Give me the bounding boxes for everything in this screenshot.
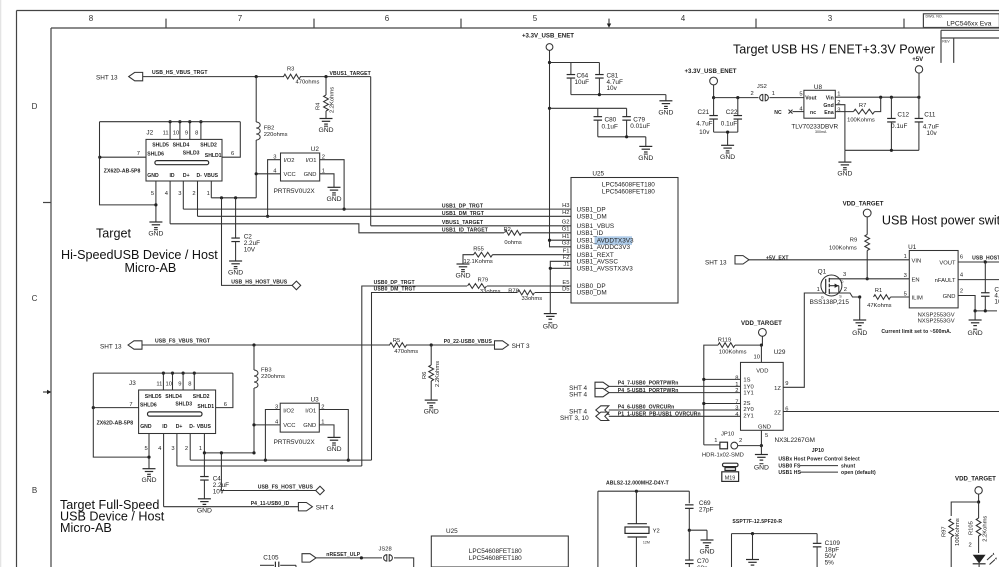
connector J2 slot bbox=[155, 161, 209, 165]
svg-text:SHLD6: SHLD6 bbox=[147, 152, 164, 158]
wire cap branch2 bbox=[550, 107, 627, 109]
svg-text:ABLS2-12.000MHZ-D4Y-T: ABLS2-12.000MHZ-D4Y-T bbox=[606, 480, 670, 486]
svg-text:GND: GND bbox=[852, 330, 867, 337]
svg-text:NXSP2553GV: NXSP2553GV bbox=[918, 319, 955, 325]
svg-text:VOUT: VOUT bbox=[939, 261, 956, 267]
resistor R5 bbox=[390, 338, 419, 355]
svg-text:D-: D- bbox=[189, 424, 195, 430]
connector J3 top pins 11 10 9 8 bbox=[156, 372, 196, 391]
ground below U3 bbox=[326, 437, 341, 453]
svg-text:GND: GND bbox=[326, 446, 341, 453]
svg-text:G2: G2 bbox=[562, 220, 570, 226]
title block label REV bbox=[942, 40, 950, 44]
svg-text:nRESET_ULP: nRESET_ULP bbox=[326, 552, 360, 558]
wire cap branch2 bottom bbox=[598, 135, 646, 146]
svg-text:GND: GND bbox=[304, 172, 317, 178]
svg-text:100Kohms: 100Kohms bbox=[847, 118, 875, 124]
svg-text:+5V: +5V bbox=[912, 56, 924, 63]
svg-text:6: 6 bbox=[960, 254, 963, 260]
svg-text:3: 3 bbox=[904, 273, 907, 279]
svg-text:11: 11 bbox=[163, 130, 169, 136]
connector J3 shield pin labels bbox=[140, 394, 214, 410]
svg-text:USB1 HS: USB1 HS bbox=[778, 470, 801, 476]
wire SSPT7F top bbox=[732, 532, 818, 567]
svg-text:+5V_EXT: +5V_EXT bbox=[766, 255, 789, 261]
net label P1_1-USER_PB-USB1_OVRCURn bbox=[618, 411, 701, 417]
sheet port SHT 13 USB_HS_VBUS_TRGT bbox=[96, 72, 143, 81]
ic U1 NXSP2553GV body bbox=[908, 244, 958, 325]
highlight USB1_AVDDTX3V3 bbox=[595, 236, 632, 245]
net label USB_FS_VBUS_TRGT bbox=[155, 339, 211, 345]
svg-text:nFAULT: nFAULT bbox=[935, 278, 956, 284]
svg-text:VIN: VIN bbox=[912, 258, 922, 264]
svg-text:VDD_TARGET: VDD_TARGET bbox=[955, 476, 996, 483]
svg-text:R1: R1 bbox=[875, 288, 882, 294]
svg-text:GND: GND bbox=[837, 171, 852, 178]
wire U8 Gnd bbox=[835, 105, 845, 151]
svg-text:NC: NC bbox=[774, 110, 782, 116]
svg-text:E5: E5 bbox=[562, 280, 569, 286]
net label USB1_DM_TRGT bbox=[442, 211, 485, 217]
svg-text:USB Host power switch: USB Host power switch bbox=[882, 214, 999, 228]
svg-text:2: 2 bbox=[321, 404, 324, 410]
svg-text:9: 9 bbox=[785, 381, 788, 387]
column label 7 bbox=[238, 14, 243, 23]
junction cap branch 2 bbox=[548, 107, 551, 110]
wire VDD to U29 bbox=[754, 344, 763, 363]
net label +5V_EXT bbox=[766, 255, 789, 261]
sheet center mark top bbox=[607, 19, 611, 28]
svg-text:10: 10 bbox=[754, 355, 760, 361]
wire J2 shield left to gnd bbox=[100, 122, 156, 205]
svg-text:D-: D- bbox=[197, 173, 203, 179]
svg-text:USB1_DM_TRGT: USB1_DM_TRGT bbox=[442, 211, 485, 217]
svg-text:0.1uF: 0.1uF bbox=[602, 124, 618, 131]
off-page diamond USB_HS_HOST_VBUS bbox=[292, 281, 301, 290]
svg-text:USB1_ID_TARGET: USB1_ID_TARGET bbox=[442, 228, 489, 234]
svg-text:open (default): open (default) bbox=[841, 470, 876, 476]
net label USB_HS_HOST_VBUS bbox=[231, 279, 287, 285]
svg-text:5: 5 bbox=[151, 191, 154, 197]
ground below C2 bbox=[228, 261, 243, 277]
svg-text:R6: R6 bbox=[422, 372, 428, 379]
svg-text:C21: C21 bbox=[698, 109, 710, 116]
svg-text:Y2: Y2 bbox=[653, 529, 660, 535]
power symbol +5V bbox=[912, 56, 924, 97]
off-page diamond USB_FS_HOST_VBUS bbox=[316, 486, 325, 495]
wire U29 2S bbox=[702, 402, 740, 405]
svg-text:R55: R55 bbox=[473, 246, 484, 252]
svg-text:1: 1 bbox=[735, 382, 738, 388]
svg-text:220ohms: 220ohms bbox=[261, 374, 285, 380]
svg-text:SHT 3, 10: SHT 3, 10 bbox=[560, 415, 589, 422]
capacitor C21 bbox=[696, 98, 718, 136]
net label VBUS1_TARGET top bbox=[330, 71, 372, 77]
svg-text:1: 1 bbox=[321, 420, 324, 426]
jumper JP10 header bbox=[702, 432, 761, 459]
svg-text:USB_FS_HOST_VBUS: USB_FS_HOST_VBUS bbox=[258, 485, 314, 491]
svg-text:USB1_DP_TRGT: USB1_DP_TRGT bbox=[442, 203, 484, 209]
resistor R6 bbox=[422, 345, 441, 400]
wire cap branch1 bottom bbox=[571, 93, 666, 101]
svg-text:SHLD3: SHLD3 bbox=[175, 402, 192, 408]
ground crystal bbox=[699, 540, 714, 556]
wire USB1_ID_TARGET bbox=[170, 224, 571, 233]
ferrite bead FB2 bbox=[256, 77, 287, 198]
svg-text:C11: C11 bbox=[924, 111, 936, 118]
ground below Q1 source bbox=[852, 320, 867, 337]
svg-text:ID: ID bbox=[162, 424, 167, 430]
ic U25 pin designators bbox=[562, 203, 570, 292]
svg-text:JS28: JS28 bbox=[379, 547, 392, 553]
wire U29 1S bbox=[702, 378, 740, 381]
svg-text:H3: H3 bbox=[562, 203, 569, 209]
svg-text:2.2Kohms: 2.2Kohms bbox=[435, 361, 441, 387]
resistor R9 bbox=[829, 235, 870, 281]
svg-text:1Y1: 1Y1 bbox=[743, 391, 753, 397]
svg-text:LPC546xx Eva: LPC546xx Eva bbox=[947, 20, 992, 27]
wire P1_1-USER_PB-USB1_OVRCURn bbox=[609, 415, 741, 417]
svg-text:SHLD1: SHLD1 bbox=[205, 153, 222, 159]
svg-text:F2: F2 bbox=[563, 255, 570, 261]
ground below R55 bbox=[455, 264, 470, 280]
ic U3 pin labels bbox=[283, 408, 316, 429]
svg-text:3: 3 bbox=[828, 14, 833, 23]
ic U1 pin labels bbox=[904, 254, 964, 302]
column label 3 bbox=[828, 14, 833, 23]
svg-text:Vout: Vout bbox=[805, 96, 816, 102]
connector J2 bottom pin labels bbox=[147, 173, 218, 179]
connector J3 pin1 VBUS stub bbox=[199, 434, 205, 453]
ground below U8 bbox=[837, 162, 852, 178]
capacitor C81 bbox=[595, 63, 623, 95]
svg-text:R105: R105 bbox=[969, 521, 975, 535]
svg-text:GND: GND bbox=[228, 270, 243, 277]
svg-text:D+: D+ bbox=[176, 424, 183, 430]
svg-text:2: 2 bbox=[968, 542, 971, 548]
svg-text:5: 5 bbox=[145, 446, 148, 452]
note JP10 function bbox=[778, 448, 876, 476]
net label USB_FS_HOST_VBUS bbox=[258, 485, 314, 491]
svg-text:3: 3 bbox=[735, 406, 738, 412]
title USB Host power switch bbox=[882, 214, 999, 228]
svg-text:GND: GND bbox=[754, 465, 769, 472]
wire USB1_DM_TRGT bbox=[198, 215, 572, 217]
svg-text:USBx Host Power Control Select: USBx Host Power Control Select bbox=[778, 456, 860, 462]
junction C2 tap bbox=[234, 196, 237, 199]
svg-text:SHT 13: SHT 13 bbox=[96, 74, 118, 81]
power symbol VDD_TARGET U1 bbox=[843, 201, 884, 235]
svg-text:10v: 10v bbox=[699, 129, 710, 136]
svg-text:C70: C70 bbox=[697, 558, 709, 565]
svg-text:DWG. NO.: DWG. NO. bbox=[926, 15, 943, 19]
note crystal part number bbox=[606, 480, 670, 486]
note current limit bbox=[881, 329, 952, 335]
net label USB_HS_VBUS_TRGT bbox=[152, 70, 208, 76]
svg-text:VCC: VCC bbox=[283, 423, 295, 429]
column label 6 bbox=[385, 14, 390, 23]
svg-text:VBUS: VBUS bbox=[204, 173, 219, 179]
svg-text:2.2Kohms: 2.2Kohms bbox=[330, 87, 336, 113]
svg-text:USB_HS_HOST_VBUS: USB_HS_HOST_VBUS bbox=[231, 279, 287, 285]
wire USB_FS_HOST_VBUS bbox=[221, 453, 315, 491]
ic U2 pin1 wire bbox=[320, 169, 334, 188]
svg-text:J3: J3 bbox=[129, 380, 136, 387]
svg-text:USB1_AVSSC: USB1_AVSSC bbox=[577, 259, 619, 266]
svg-text:5%: 5% bbox=[825, 560, 835, 567]
svg-text:Vin: Vin bbox=[826, 95, 834, 101]
sheet port SHT4 PORTPWR1 bbox=[569, 382, 609, 398]
svg-text:U3: U3 bbox=[311, 396, 320, 403]
svg-text:D5: D5 bbox=[562, 286, 569, 292]
net label USB1_ID_TARGET bbox=[442, 228, 489, 234]
svg-text:R9: R9 bbox=[850, 237, 857, 243]
transistor Q1 BSS138P bbox=[810, 269, 850, 307]
sheet port SHT4 PORTPWR0 bbox=[569, 382, 609, 392]
svg-text:R7: R7 bbox=[859, 103, 866, 109]
capacitor C4 bbox=[200, 453, 229, 499]
svg-text:U25: U25 bbox=[446, 528, 458, 535]
wire P4_11-USB0_ID bbox=[164, 506, 299, 508]
connector J2 pin5 GND stub bbox=[151, 181, 158, 222]
svg-text:C105: C105 bbox=[263, 554, 279, 561]
svg-text:+3.3V_USB_ENET: +3.3V_USB_ENET bbox=[522, 33, 574, 40]
svg-text:Target USB HS / ENET+3.3V Powe: Target USB HS / ENET+3.3V Power bbox=[733, 43, 935, 57]
svg-text:GND: GND bbox=[720, 154, 735, 161]
capacitor C2 bbox=[231, 198, 260, 261]
svg-text:0.1uF: 0.1uF bbox=[891, 123, 907, 130]
ground below R6 bbox=[424, 400, 439, 416]
power symbol VDD_TARGET U29 bbox=[741, 320, 782, 345]
resistor R78 bbox=[508, 288, 542, 302]
svg-text:NX3L2267GM: NX3L2267GM bbox=[775, 437, 816, 444]
svg-text:JP10: JP10 bbox=[721, 432, 734, 438]
ic U25 pin function labels bbox=[577, 206, 635, 296]
wire EN bbox=[829, 278, 909, 280]
resistor R7 bbox=[835, 97, 880, 123]
svg-text:P4_7-USB0_PORTPWRn: P4_7-USB0_PORTPWRn bbox=[618, 381, 679, 387]
junction cap branch 1 bbox=[548, 61, 551, 64]
svg-text:1Y0: 1Y0 bbox=[743, 384, 753, 390]
svg-text:1S: 1S bbox=[743, 377, 750, 383]
svg-text:VDD: VDD bbox=[756, 368, 768, 374]
svg-text:10: 10 bbox=[173, 130, 179, 136]
wire +5V_EXT to VIN bbox=[749, 259, 909, 261]
svg-text:2: 2 bbox=[837, 100, 840, 106]
svg-text:GND: GND bbox=[197, 507, 212, 514]
svg-text:2S: 2S bbox=[743, 401, 750, 407]
ferrite bead FB3 bbox=[254, 345, 285, 453]
connector J3 bottom pin labels bbox=[140, 424, 211, 430]
net label USB0_DM_TRGT bbox=[374, 286, 417, 292]
sheet center mark left bbox=[43, 390, 51, 394]
wire P4_7-USB0_PORTPWRn bbox=[609, 385, 741, 387]
svg-text:2Y1: 2Y1 bbox=[743, 414, 753, 420]
resistor R2 bbox=[504, 227, 522, 246]
svg-text:P1_1-USER_PB-USB1_OVRCURn: P1_1-USER_PB-USB1_OVRCURn bbox=[618, 411, 701, 417]
capacitor C105 bbox=[260, 554, 296, 567]
wire cap branch1 bbox=[550, 62, 600, 64]
net label P4_11-USB0_ID bbox=[251, 501, 290, 507]
wire USB_FS_VBUS_TRGT bbox=[142, 344, 495, 346]
wire USB_HS_HOST_VBUS bbox=[222, 198, 293, 286]
svg-text:10V: 10V bbox=[244, 246, 256, 253]
ic U8 TLV70233DBVR body bbox=[791, 84, 838, 134]
svg-text:1: 1 bbox=[817, 287, 820, 293]
svg-text:I/O1: I/O1 bbox=[305, 408, 316, 414]
svg-text:2: 2 bbox=[844, 287, 847, 293]
svg-text:M19: M19 bbox=[725, 475, 736, 481]
svg-text:8: 8 bbox=[188, 381, 191, 387]
svg-text:0.01uF: 0.01uF bbox=[630, 123, 650, 130]
connector J2 pin4 ID stub bbox=[165, 181, 170, 224]
svg-text:B: B bbox=[32, 486, 37, 495]
svg-text:Gnd: Gnd bbox=[823, 103, 833, 109]
svg-text:USB1_AVDDC3V3: USB1_AVDDC3V3 bbox=[577, 244, 631, 251]
svg-text:10: 10 bbox=[166, 381, 172, 387]
svg-text:USB1_VBUS: USB1_VBUS bbox=[577, 223, 615, 230]
wire J3 Dminus run bbox=[190, 459, 371, 462]
wire J3 Dplus run bbox=[177, 465, 362, 467]
svg-text:SSPT7F-12.5PF20-R: SSPT7F-12.5PF20-R bbox=[732, 519, 782, 525]
svg-text:6: 6 bbox=[385, 14, 390, 23]
svg-text:P4_5-USB1_PORTPWRn: P4_5-USB1_PORTPWRn bbox=[618, 388, 679, 394]
svg-text:SHLD5: SHLD5 bbox=[145, 394, 162, 400]
svg-text:Current limit set to ~500mA.: Current limit set to ~500mA. bbox=[881, 329, 952, 335]
svg-text:LPC54608FET180: LPC54608FET180 bbox=[469, 555, 522, 562]
row label D bbox=[32, 102, 38, 111]
svg-text:P4_11-USB0_ID: P4_11-USB0_ID bbox=[251, 501, 290, 507]
junction FB2 tap bbox=[255, 75, 258, 78]
svg-text:SHLD1: SHLD1 bbox=[197, 404, 214, 410]
svg-text:470ohms: 470ohms bbox=[296, 80, 320, 86]
wire VBUS1_TARGET vertical bbox=[370, 77, 372, 226]
svg-text:SHT 13: SHT 13 bbox=[705, 259, 727, 266]
sheet port SHT4 OVRCUR0 bbox=[569, 406, 609, 416]
ground below C4 bbox=[197, 499, 212, 515]
title Target USB HS ENET power bbox=[733, 43, 935, 57]
title block text LPC546xx Eva bbox=[947, 20, 992, 27]
wire VBUS1_TARGET horizontal bbox=[371, 225, 571, 227]
ground below U25 AVSS bbox=[543, 314, 558, 331]
resistor R105 bbox=[968, 502, 988, 553]
title block label DWG NO bbox=[926, 15, 943, 19]
svg-text:R78: R78 bbox=[508, 288, 519, 294]
column tick 4/3 bbox=[755, 19, 757, 28]
sheet port SHT 13 USB_FS_VBUS_TRGT bbox=[100, 341, 142, 351]
svg-text:U29: U29 bbox=[774, 349, 786, 356]
svg-text:shunt: shunt bbox=[841, 463, 855, 469]
svg-text:U8: U8 bbox=[814, 84, 823, 91]
svg-text:nc: nc bbox=[810, 110, 816, 116]
svg-text:U2: U2 bbox=[311, 146, 320, 153]
sheet port SHT 4 USB0_ID bbox=[298, 503, 334, 512]
wire regulator output bottom rail bbox=[845, 149, 919, 162]
svg-text:USB1_ID: USB1_ID bbox=[577, 230, 604, 237]
junction FB3 tap bbox=[252, 343, 255, 346]
svg-text:5: 5 bbox=[904, 291, 907, 297]
svg-text:+3.3V_USB_ENET: +3.3V_USB_ENET bbox=[685, 68, 737, 75]
svg-text:2: 2 bbox=[185, 446, 188, 452]
svg-text:P0_22-USB0_VBUS: P0_22-USB0_VBUS bbox=[444, 339, 493, 345]
svg-text:J1: J1 bbox=[563, 262, 569, 268]
svg-text:C80: C80 bbox=[605, 116, 617, 123]
row label B bbox=[32, 486, 37, 495]
net label USB_HOST bbox=[972, 255, 999, 261]
svg-text:USB0 FS: USB0 FS bbox=[778, 463, 801, 469]
svg-text:3: 3 bbox=[843, 272, 846, 278]
ground below C21 C22 bbox=[720, 145, 735, 161]
svg-text:300mA: 300mA bbox=[815, 130, 827, 134]
svg-text:11: 11 bbox=[156, 381, 162, 387]
capacitor C70 bbox=[685, 530, 709, 567]
resistor R55 bbox=[463, 246, 571, 265]
svg-text:2: 2 bbox=[322, 155, 325, 161]
svg-text:SHLD2: SHLD2 bbox=[193, 394, 210, 400]
connector J2 top pins 11 10 9 8 bbox=[163, 120, 203, 139]
svg-text:PRTR5V0U2X: PRTR5V0U2X bbox=[274, 439, 316, 446]
wire P4_6-USB0_OVRCURn bbox=[609, 409, 741, 411]
connector J3 pin5 GND stub bbox=[145, 434, 151, 469]
wire Q1 gate to U29 1Z bbox=[783, 293, 826, 387]
svg-text:8: 8 bbox=[735, 376, 738, 382]
net label VBUS1_TARGET bbox=[442, 220, 484, 226]
power symbol +3.3V_USB_ENET regulator side bbox=[685, 68, 737, 99]
sheet port nRESET_ULP bbox=[302, 552, 361, 562]
junction R6 tap bbox=[430, 343, 433, 346]
svg-text:9: 9 bbox=[178, 381, 181, 387]
svg-text:470ohms: 470ohms bbox=[394, 349, 418, 355]
svg-text:7: 7 bbox=[129, 402, 132, 408]
svg-text:P4_6-USB0_OVRCURn: P4_6-USB0_OVRCURn bbox=[618, 405, 675, 411]
ground branch2 bbox=[638, 146, 653, 162]
sheet port SHT 13 +5V_EXT bbox=[705, 256, 749, 267]
wire C21 C22 bottom bbox=[714, 131, 738, 146]
svg-text:GND: GND bbox=[758, 424, 771, 430]
svg-text:4: 4 bbox=[681, 14, 686, 23]
wire J2 VBUS rail bbox=[211, 197, 256, 199]
svg-text:1Z: 1Z bbox=[774, 386, 781, 392]
resistor R1 bbox=[867, 288, 909, 309]
svg-text:5: 5 bbox=[765, 433, 768, 439]
connector J3 pin4 ID stub bbox=[158, 434, 164, 507]
wire U1 gnd rail bbox=[974, 309, 998, 320]
capacitor C69 bbox=[685, 491, 714, 530]
svg-text:GND: GND bbox=[543, 324, 558, 331]
svg-text:H2: H2 bbox=[562, 210, 569, 216]
ground below U1 bbox=[968, 320, 983, 337]
connector J2 body ZX62D-AB-5P8 bbox=[104, 129, 222, 181]
svg-text:J2: J2 bbox=[146, 129, 153, 136]
column tick 8/7 bbox=[165, 19, 167, 28]
svg-text:6: 6 bbox=[224, 402, 227, 408]
ground below J3 pin5 bbox=[141, 469, 156, 485]
column tick right of 3 bbox=[903, 19, 905, 28]
svg-text:Ena: Ena bbox=[824, 110, 834, 116]
svg-text:USB0_DM: USB0_DM bbox=[577, 290, 607, 297]
svg-text:PRTR5V0U2X: PRTR5V0U2X bbox=[274, 188, 316, 195]
svg-text:R2: R2 bbox=[504, 227, 511, 233]
column label 5 bbox=[533, 14, 538, 23]
svg-text:ZX62D-AB-5P8: ZX62D-AB-5P8 bbox=[97, 421, 134, 427]
svg-text:FB3: FB3 bbox=[261, 368, 272, 374]
svg-text:ILIM: ILIM bbox=[912, 296, 923, 302]
wire nRESET_ULP bbox=[316, 556, 414, 567]
junction host vbus tap bbox=[220, 196, 223, 199]
svg-text:27pF: 27pF bbox=[699, 507, 714, 514]
svg-text:33ohms: 33ohms bbox=[480, 289, 501, 295]
svg-text:33ohms: 33ohms bbox=[522, 296, 543, 302]
